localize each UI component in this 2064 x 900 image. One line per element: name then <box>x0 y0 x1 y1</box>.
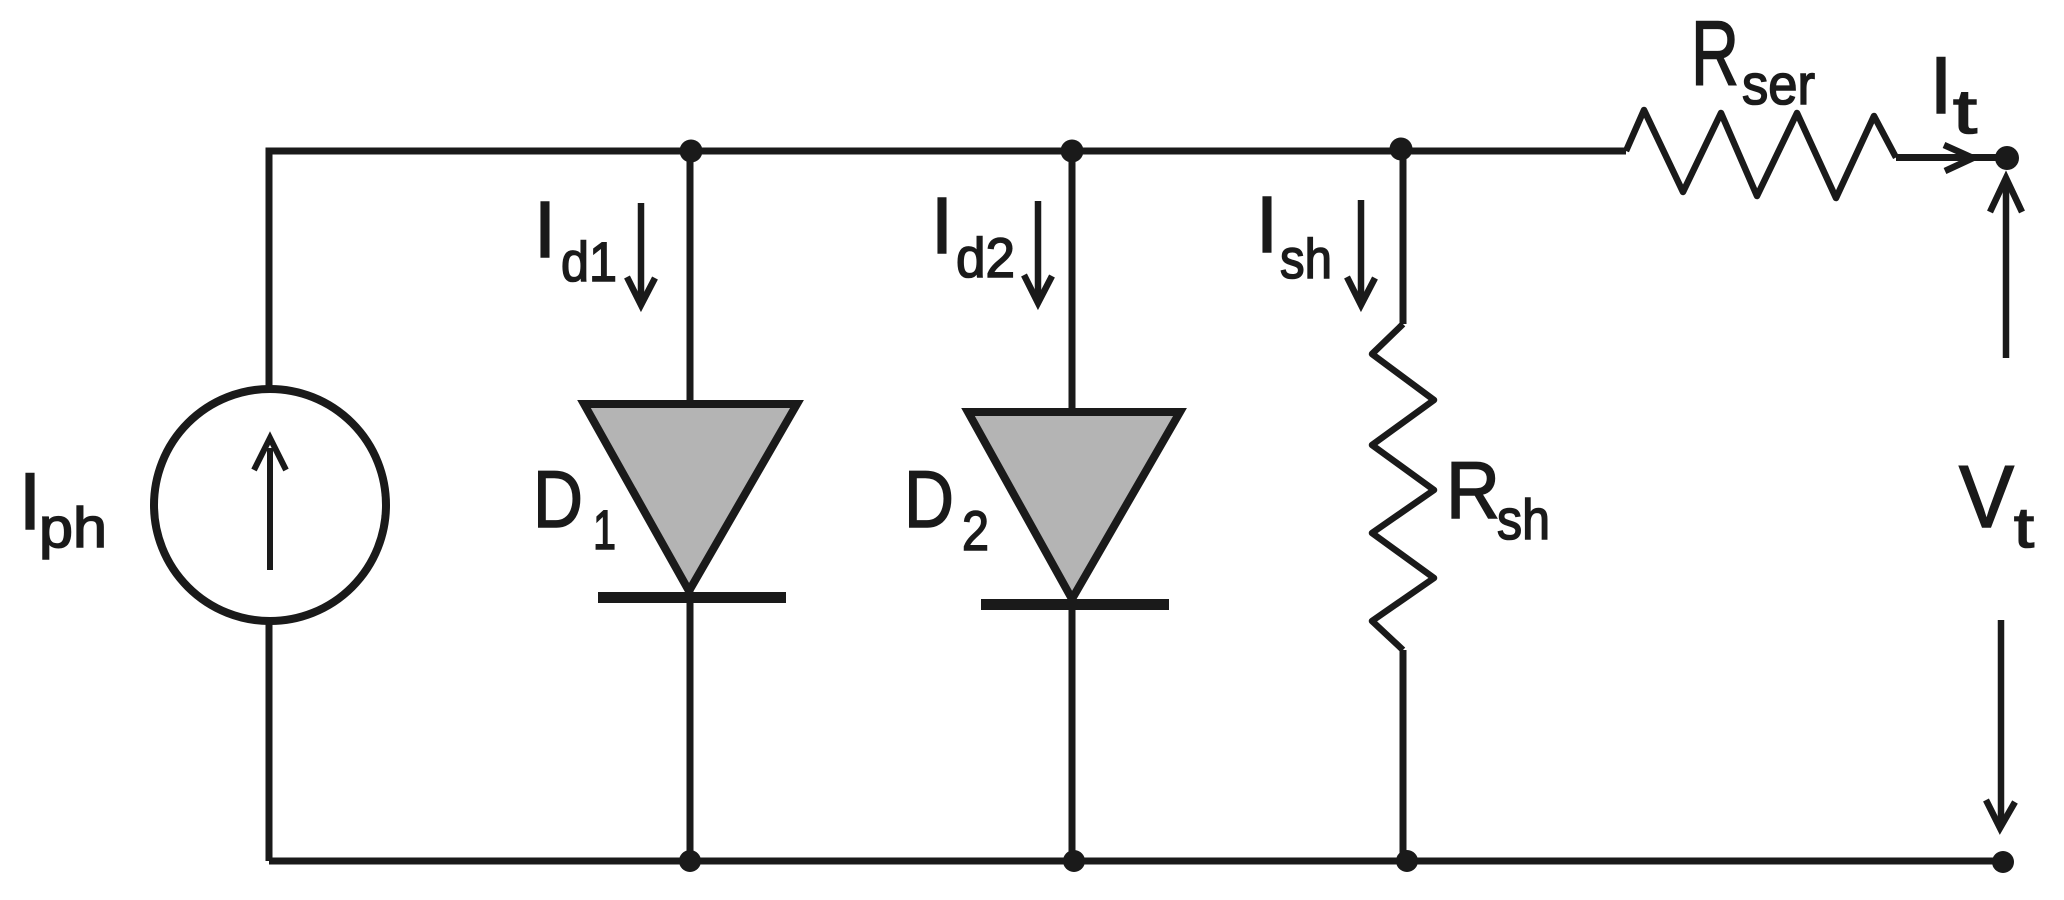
node terminal top right <box>1995 146 2019 170</box>
voltage arrow V_t up <box>1990 178 2022 358</box>
svg-text:I: I <box>19 457 42 547</box>
svg-text:d1: d1 <box>561 230 617 293</box>
wire Rsh branch lower <box>1400 650 1407 861</box>
svg-text:R: R <box>1691 3 1739 105</box>
svg-text:I: I <box>1256 180 1278 269</box>
svg-text:t: t <box>1953 78 1977 147</box>
diode D2 <box>968 412 1180 605</box>
voltage arrow V_t down <box>1986 620 2015 828</box>
node terminal bottom right <box>1992 851 2014 873</box>
svg-text:d2: d2 <box>956 226 1015 289</box>
label D2 <box>904 455 989 562</box>
label V_t <box>1959 447 2034 560</box>
svg-text:D: D <box>533 455 583 545</box>
svg-text:sh: sh <box>1280 227 1332 290</box>
label R_sh <box>1446 446 1550 552</box>
current source Iph <box>154 389 386 621</box>
current arrow I_t <box>1944 145 1973 171</box>
node bottom junction D1 <box>679 850 701 872</box>
wire diode D2 branch upper <box>1069 151 1076 416</box>
node top junction D2 <box>1061 140 1084 163</box>
diode D1 <box>584 404 797 598</box>
svg-text:t: t <box>2014 496 2034 560</box>
svg-text:V: V <box>1959 447 2014 546</box>
wire diode D1 branch lower <box>687 591 694 861</box>
svg-text:sh: sh <box>1497 488 1550 552</box>
node bottom junction D2 <box>1063 850 1085 872</box>
label I_d2 <box>931 181 1015 289</box>
wire diode D2 branch lower <box>1069 599 1076 861</box>
svg-text:I: I <box>931 181 953 270</box>
svg-text:I: I <box>534 185 556 274</box>
current arrow I_d1 <box>627 203 655 305</box>
label I_ph <box>19 457 107 560</box>
label I_sh <box>1256 180 1332 290</box>
wire top horizontal <box>269 148 1626 155</box>
wire diode D1 branch upper <box>687 151 694 408</box>
label R_ser <box>1691 3 1815 117</box>
wire Rsh branch upper <box>1400 151 1407 324</box>
label I_t <box>1930 41 1977 147</box>
label I_d1 <box>534 185 617 293</box>
svg-text:R: R <box>1446 446 1500 536</box>
resistor Rsh <box>1372 324 1434 650</box>
svg-text:2: 2 <box>962 499 989 562</box>
current arrow I_sh <box>1347 200 1375 305</box>
node bottom junction Rsh <box>1396 850 1418 872</box>
svg-text:1: 1 <box>593 498 616 561</box>
svg-text:I: I <box>1930 41 1953 131</box>
svg-text:ph: ph <box>39 496 107 560</box>
node top junction Rsh <box>1390 138 1413 161</box>
wire bottom horizontal <box>269 858 2003 865</box>
svg-text:D: D <box>904 455 954 545</box>
svg-text:ser: ser <box>1742 53 1815 117</box>
node top junction D1 <box>680 140 703 163</box>
wire left vertical lower <box>266 623 273 861</box>
resistor Rser <box>1626 110 1896 198</box>
label D1 <box>533 455 616 561</box>
current arrow I_d2 <box>1024 201 1052 303</box>
wire top right stub after Rser <box>1896 154 2006 161</box>
wire left vertical upper <box>266 148 273 390</box>
